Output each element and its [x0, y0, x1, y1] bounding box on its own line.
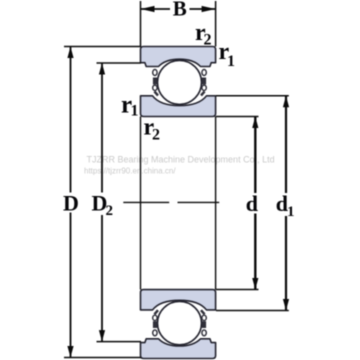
svg-text:TJZRR Bearing Machine Developm: TJZRR Bearing Machine Development Co., L… [87, 155, 275, 165]
svg-text:2: 2 [106, 203, 114, 219]
svg-text:2: 2 [152, 127, 160, 144]
ball top [158, 60, 202, 104]
bottom bearing half-section (mirror) [141, 290, 216, 359]
svg-text:1: 1 [131, 103, 139, 120]
B dimension line [141, 8, 171, 10]
inner ring top [141, 96, 216, 117]
d1 dimension line [285, 96, 287, 193]
D2 dimension line [101, 63, 103, 193]
d1 extension lines [216, 95, 289, 97]
cage right (mirror) [201, 70, 206, 96]
d extension lines [216, 116, 259, 118]
D2 extension lines [97, 62, 142, 64]
svg-text:1: 1 [287, 204, 295, 220]
cage left [153, 70, 158, 96]
svg-text:d: d [246, 191, 258, 216]
svg-text:D: D [63, 191, 79, 216]
centerline [123, 201, 169, 203]
svg-text:2: 2 [204, 32, 212, 49]
D dimension line [70, 47, 72, 193]
svg-text:B: B [173, 0, 187, 20]
face lines through bore (middle) [140, 117, 142, 290]
svg-text:https://tjzrr90.en.china.cn/: https://tjzrr90.en.china.cn/ [84, 167, 176, 176]
d dimension line [254, 117, 256, 194]
face extension lines above bearing (B) [140, 1, 142, 47]
outer ring top [141, 47, 216, 67]
top bearing half-section [141, 47, 216, 117]
svg-text:1: 1 [227, 53, 235, 70]
D extension lines [64, 46, 141, 48]
